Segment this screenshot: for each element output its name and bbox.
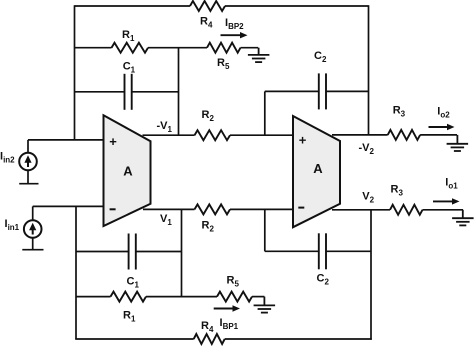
wire left vertical lower (-in A1 node down to bottom loop) [75, 206, 77, 339]
wire bottom feedback loop right segment [225, 338, 372, 340]
wire R2 bottom to A2 - input [230, 208, 294, 210]
svg-text:A: A [123, 163, 133, 178]
wire top feedback loop left segment [75, 5, 191, 7]
current arrow IBP2 with label [221, 17, 248, 38]
wire R1 top row [75, 47, 112, 49]
capacitor C1 (bottom) [76, 234, 182, 290]
wire left vertical upper (node +in A1) [74, 5, 76, 140]
wire vertical V1 node down to C1/R1 bottom [181, 209, 183, 296]
op-amp A2 [293, 116, 340, 227]
wire vertical C2 to A2 + input [264, 91, 266, 135]
resistor R1 (bottom) [111, 292, 147, 324]
wire R1 bottom row left [76, 296, 111, 298]
resistor R5 (top) [207, 43, 241, 71]
capacitor C2 (top) [265, 50, 369, 109]
current arrow Io2 with label [429, 106, 455, 131]
wire A1 bottom output to R2 bottom [143, 208, 195, 210]
capacitor C1 (top) [123, 61, 136, 110]
wire top feedback loop right segment [225, 5, 369, 7]
resistor R1 (top) [112, 29, 149, 53]
wire C1 top right [132, 91, 179, 93]
wire between R1 and R5 (node to -V1 vertical) [148, 47, 207, 49]
wire R3 top to ground [420, 134, 457, 136]
wire R5 top to ground [241, 47, 259, 49]
wire A2 top output to R3 [332, 134, 388, 136]
wire between R1 bottom and R5 bottom [146, 296, 217, 298]
ground at R5 top [248, 48, 270, 62]
node -V2 label [359, 142, 375, 156]
resistor R4 (bottom) [194, 320, 225, 344]
wire right vertical upper (top loop to -V2 node) [368, 5, 370, 135]
current source Iin2 [0, 140, 39, 184]
node V1 label [160, 213, 172, 227]
node -V1 label [157, 120, 173, 134]
wire right vertical lower (V2 node down to bottom loop) [370, 210, 372, 340]
ground at Io1 output [452, 210, 474, 226]
wire A1 top output to R2 [143, 134, 195, 136]
wire R5 bottom to ground [252, 296, 264, 298]
wire Iin2 to A1 + input [28, 139, 104, 141]
wire A2 bottom output to R3 bottom [332, 209, 390, 211]
ground at Io2 output [447, 135, 469, 151]
wire vertical -V1 node (R1/R5/C1 join) [178, 48, 180, 136]
resistor R4 (top) [190, 1, 225, 30]
resistor R5 (bottom) [217, 274, 252, 301]
wire C1 top left [75, 91, 125, 93]
svg-text:+: + [109, 134, 117, 149]
node V2 label [362, 190, 374, 204]
wire R2 top to A2 + input [230, 134, 294, 136]
capacitor C2 (bottom) [265, 233, 371, 286]
resistor R2 (top) [195, 109, 231, 140]
op-amp A1 [104, 115, 151, 226]
current arrow Io1 with label [433, 176, 460, 204]
ground at R5 bottom [254, 297, 276, 313]
wire R3 bottom to ground [423, 209, 464, 211]
current arrow IBP1 with label [214, 305, 240, 331]
svg-text:+: + [299, 132, 307, 147]
resistor R3 (bottom) [390, 183, 423, 214]
svg-text:A: A [313, 161, 323, 176]
wire vertical A2 - input down to C2 bottom [264, 209, 266, 251]
wire Iin1 to A1 - input [33, 205, 104, 207]
current source Iin1 [5, 206, 44, 249]
wire bottom feedback loop left segment [75, 338, 194, 340]
resistor R2 (bottom) [195, 204, 231, 233]
resistor R3 (top) [388, 104, 420, 140]
